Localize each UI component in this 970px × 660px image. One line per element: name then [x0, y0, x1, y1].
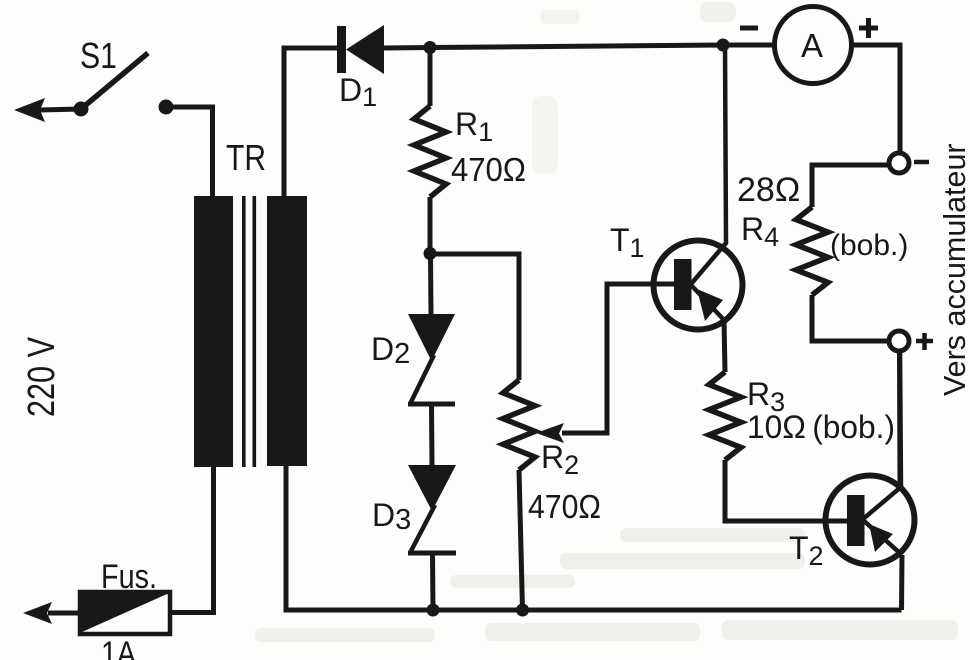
wire R2 bottom to bottom rail: [519, 470, 523, 610]
ammeter A: [775, 7, 852, 84]
minus terminal dash: [914, 160, 929, 165]
ghost scan streaks: [255, 2, 958, 642]
svg-text:T2: T2: [789, 530, 824, 571]
svg-text:470Ω: 470Ω: [528, 488, 601, 525]
svg-text:TR: TR: [226, 137, 266, 178]
svg-text:R4: R4: [741, 211, 779, 252]
svg-text:220 V: 220 V: [21, 336, 63, 417]
svg-text:10Ω (bob.): 10Ω (bob.): [747, 409, 895, 445]
node: switch contact dot: [159, 100, 174, 115]
transistor T1 base bar: [674, 259, 692, 310]
svg-text:T1: T1: [610, 222, 645, 263]
terminal minus: [889, 153, 909, 173]
wire minus terminal to R4: [812, 165, 889, 207]
transistor T2 collector: [863, 351, 901, 519]
top wire D1 to ammeter: [384, 45, 775, 48]
wire plus terminal to T2 collector: [897, 351, 903, 488]
transistor T1 collector: [691, 45, 726, 284]
node dot top T1 collector: [717, 39, 730, 52]
resistor R4 28ohm: [796, 207, 828, 295]
wire R3 to T2 base: [725, 460, 848, 521]
transistor T1 emitter (PNP arrow): [691, 285, 725, 372]
transformer TR primary winding: [194, 196, 233, 467]
potentiometer R2 470ohm: [503, 380, 535, 470]
fuse Fus. 1A body: [80, 592, 170, 634]
bottom rail wire: [286, 466, 902, 610]
wire node to D2: [428, 254, 434, 315]
R2 wiper arrow: [536, 284, 674, 443]
svg-text:470Ω: 470Ω: [451, 151, 526, 188]
svg-text:D2: D2: [371, 331, 410, 370]
svg-text:R1: R1: [455, 106, 493, 147]
resistor R3 10ohm: [709, 372, 741, 460]
wire D3 to bottom rail: [430, 553, 436, 610]
fuse arrow to mains: [23, 602, 80, 624]
transistor T2 emitter (PNP arrow): [863, 520, 902, 610]
transformer TR secondary winding: [267, 196, 307, 466]
svg-text:D1: D1: [339, 72, 377, 112]
svg-text:D3: D3: [372, 497, 411, 536]
resistor R1 470ohm: [414, 106, 446, 197]
wire D2 to D3: [429, 404, 435, 466]
transformer TR core lines: [242, 196, 246, 467]
plus terminal sign: [916, 333, 933, 350]
node dot top of R1: [424, 41, 437, 54]
node dot R1 bottom / D2 top: [424, 247, 437, 260]
wire secondary top to D1 corner: [284, 48, 337, 196]
svg-text:1A: 1A: [101, 635, 136, 660]
wire contact to transformer primary: [166, 107, 213, 198]
ammeter plus sign: [859, 18, 878, 38]
ammeter minus sign: [740, 26, 758, 31]
wire top node to R1: [428, 48, 433, 107]
wire primary bottom to fuse: [170, 467, 214, 613]
zener D3: [408, 465, 456, 553]
svg-text:R2: R2: [541, 439, 579, 480]
svg-text:A: A: [801, 27, 823, 64]
svg-text:Vers accumulateur: Vers accumulateur: [938, 143, 970, 396]
node dot R2 on rail: [516, 604, 529, 617]
svg-text:S1: S1: [80, 35, 117, 76]
svg-text:(bob.): (bob.): [830, 229, 908, 262]
terminal plus: [889, 331, 909, 351]
switch S1 pivot dot: [74, 102, 89, 117]
transistor T2 circle: [826, 476, 915, 565]
transistor T2 base bar: [847, 495, 865, 546]
svg-text:28Ω: 28Ω: [737, 171, 800, 209]
svg-text:Fus.: Fus.: [101, 558, 157, 596]
zener D2: [408, 314, 455, 404]
node dot D3 on rail: [427, 604, 440, 617]
wire R4 to plus terminal: [812, 295, 889, 341]
diode D1: [337, 25, 384, 74]
transistor T1 circle: [654, 241, 743, 330]
switch S1 arrow: [14, 98, 80, 122]
wire node to R2 top: [430, 254, 519, 380]
switch S1 lever: [81, 53, 148, 109]
wire R1 bottom to node: [428, 197, 433, 254]
wire ammeter to minus terminal: [851, 45, 900, 153]
